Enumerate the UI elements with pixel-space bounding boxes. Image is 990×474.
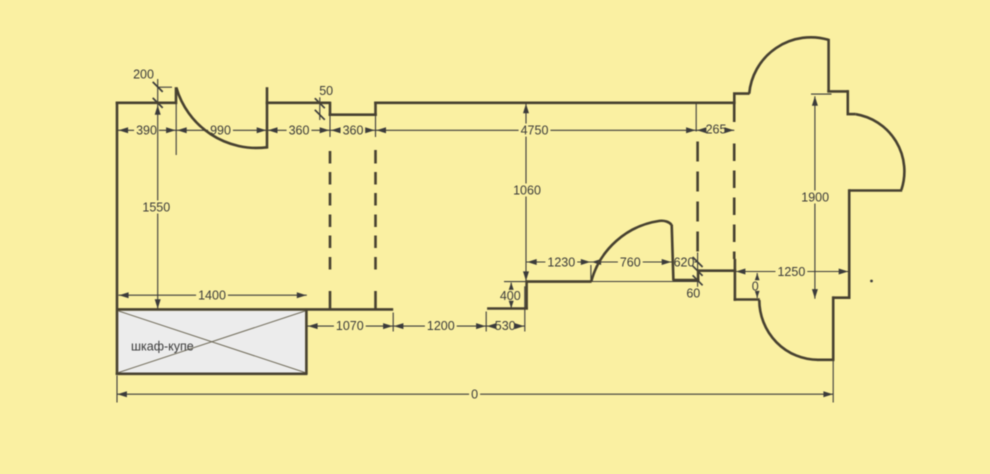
label 620 xyxy=(674,256,695,269)
arrowheads bottom chain xyxy=(308,323,318,329)
overall dimension 0 bottom line xyxy=(117,393,833,395)
arrowheads 1550 xyxy=(155,105,161,115)
dashed opening x375.5 xyxy=(374,150,377,164)
corridor wall y308.5 xyxy=(487,307,528,310)
svg-text:390: 390 xyxy=(136,124,157,138)
floor line under door D5 xyxy=(591,281,698,283)
svg-text:360: 360 xyxy=(289,124,310,138)
stray dot xyxy=(870,280,873,283)
label 760 xyxy=(618,256,643,269)
dimension 1400 line xyxy=(119,294,307,296)
extension line x158 (1550 / 200) xyxy=(157,79,159,309)
dimension 400 vertical line xyxy=(510,283,512,309)
wall step x330 xyxy=(329,102,332,116)
svg-text:1070: 1070 xyxy=(336,319,364,333)
right room jamb step horizontal xyxy=(733,92,750,95)
svg-text:1200: 1200 xyxy=(427,319,455,333)
arrowheads middle chain xyxy=(527,259,537,265)
door D3 leaf xyxy=(849,189,902,192)
extension line y281.6 left of step xyxy=(504,281,526,283)
door D1 hinge wall xyxy=(266,87,269,148)
label 390 xyxy=(134,124,159,137)
arrowheads top chain xyxy=(119,127,129,133)
dashed opening x330 xyxy=(329,151,332,164)
wardrobe diagonal 2 xyxy=(119,311,305,373)
step 60 vertical xyxy=(697,269,700,281)
arrowheads 0 right xyxy=(755,273,760,280)
dashed opening x697.6 xyxy=(696,142,699,252)
label 1070 xyxy=(334,319,366,332)
label 1900 xyxy=(799,191,831,204)
wall step x375.5 xyxy=(374,102,377,116)
arrowheads 0 bottom xyxy=(117,391,127,397)
corridor wall y281.6 xyxy=(526,280,592,283)
door D1 swing arc xyxy=(176,88,267,148)
extension line x330 below step xyxy=(329,116,331,137)
wardrobe right wall xyxy=(305,309,308,375)
svg-text:1060: 1060 xyxy=(513,183,541,197)
svg-text:1250: 1250 xyxy=(777,265,805,279)
svg-text:360: 360 xyxy=(343,124,364,138)
label 1060 xyxy=(511,184,543,197)
label 990 xyxy=(208,124,233,137)
label 0 right xyxy=(751,280,760,293)
label 360 first xyxy=(287,124,312,137)
right room bottom notch horizontal xyxy=(833,296,851,299)
label 0 bottom xyxy=(469,388,480,401)
right room bottom left wall xyxy=(734,298,760,301)
label 265 xyxy=(704,122,729,135)
extension line x375.5 below step xyxy=(375,116,377,137)
svg-text:1550: 1550 xyxy=(142,200,170,214)
wardrobe diagonal 1 xyxy=(119,311,305,373)
arrowheads 1060 xyxy=(523,104,529,114)
right room bottom notch vertical xyxy=(832,296,835,360)
right room jamb step vertical xyxy=(733,93,736,104)
door D3 swing arc right xyxy=(856,114,905,190)
extension line x525 xyxy=(524,286,526,331)
extension line x393 xyxy=(392,313,394,332)
svg-text:200: 200 xyxy=(133,68,154,82)
extension line bottom right xyxy=(832,361,834,403)
svg-text:4750: 4750 xyxy=(521,124,549,138)
dashed opening x734.2 xyxy=(733,144,736,260)
label 60 xyxy=(684,287,702,300)
svg-text:1400: 1400 xyxy=(198,288,226,302)
right room top wall vertical xyxy=(827,39,830,92)
dimension 0-right vertical line xyxy=(756,273,758,298)
corridor wall y280 xyxy=(673,279,700,282)
label 360 second xyxy=(341,124,366,137)
label 50 xyxy=(317,84,335,97)
label 1250 xyxy=(776,265,808,278)
arrowheads 400 xyxy=(509,282,514,290)
top wall segment A xyxy=(116,102,177,105)
tick marks 60 xyxy=(693,266,703,276)
extension line 50-dim x319.8 xyxy=(319,96,321,121)
bottom wall left section xyxy=(116,308,393,311)
corridor wall y270.7 xyxy=(698,269,736,272)
extension line x697.6 lower with ticks xyxy=(697,253,699,288)
right room left wall lower solid xyxy=(734,259,737,301)
left wall xyxy=(116,102,119,375)
dashed opening x734.2 top solid xyxy=(733,104,736,122)
label 200 xyxy=(131,68,156,81)
door D4 swing arc bottom right xyxy=(759,300,818,360)
dimension 1250 line xyxy=(736,271,849,273)
dimension 1060 vertical line xyxy=(525,104,527,281)
extension line x486 xyxy=(485,312,487,332)
wardrobe fill xyxy=(118,311,305,373)
label 400 xyxy=(498,289,523,302)
right room small jamb xyxy=(847,113,856,116)
svg-text:шкаф-купе: шкаф-купе xyxy=(131,340,194,354)
extension line x591 below 1230 xyxy=(590,265,592,281)
svg-text:0: 0 xyxy=(471,387,478,401)
label 1230 xyxy=(545,256,577,269)
extension line x696 (4750/265) xyxy=(695,104,697,132)
svg-text:1230: 1230 xyxy=(547,255,575,269)
extension line y94 top right xyxy=(811,93,832,95)
svg-text:620: 620 xyxy=(674,255,695,269)
top wall segment C xyxy=(374,102,735,105)
arrowheads 1400 xyxy=(119,292,129,298)
door D2 swing arc top right xyxy=(749,37,828,93)
door D1 jamb xyxy=(175,87,178,104)
label 530 xyxy=(493,319,518,332)
right room bottom wall xyxy=(818,358,835,361)
label 4750 xyxy=(519,124,551,137)
right room notch vertical xyxy=(846,90,849,114)
arrowheads 1250 xyxy=(736,269,746,275)
label 1200 xyxy=(425,319,457,332)
dimension chain line bottom (1070/1200/530) xyxy=(308,325,525,327)
extension line y87 for 200 xyxy=(158,86,172,88)
svg-text:530: 530 xyxy=(495,319,516,333)
tick mark 620 right end xyxy=(693,257,703,267)
extension line bottom left xyxy=(116,376,118,403)
door D5 leaf xyxy=(672,225,674,281)
right room right wall xyxy=(848,189,851,298)
svg-text:60: 60 xyxy=(686,287,700,301)
svg-text:50: 50 xyxy=(319,84,333,98)
svg-text:760: 760 xyxy=(620,255,641,269)
dimension chain line middle (1230/760/620) xyxy=(527,261,698,263)
step 400 vertical xyxy=(525,280,528,309)
svg-text:1900: 1900 xyxy=(801,190,829,204)
recessed wall y114.7 xyxy=(329,113,377,116)
extension line door1 jamb x176 xyxy=(175,104,177,155)
svg-text:265: 265 xyxy=(706,122,727,136)
tick marks 200 xyxy=(153,82,163,92)
door D5 swing arc xyxy=(591,221,671,282)
arrowheads 1900 xyxy=(812,96,818,106)
dimension chain line top (390/990/360/360/4750/265) xyxy=(118,129,735,131)
label 1550 xyxy=(140,201,172,214)
wardrobe bottom wall xyxy=(116,372,308,375)
right room notch horizontal xyxy=(827,90,848,93)
top wall segment B xyxy=(266,102,331,105)
label 1400 xyxy=(196,288,228,301)
tick marks 50 xyxy=(315,98,325,108)
dimension 1900 vertical line xyxy=(814,96,816,299)
